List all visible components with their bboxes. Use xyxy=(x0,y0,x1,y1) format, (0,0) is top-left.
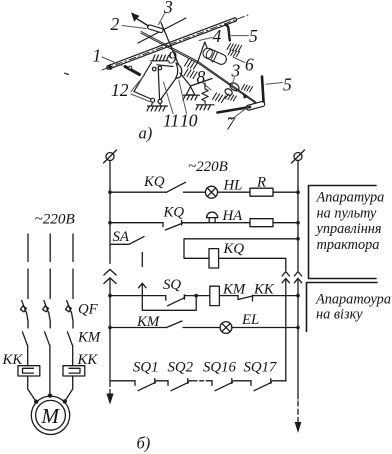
spring left of eye xyxy=(213,93,226,103)
leader 5 right xyxy=(266,83,283,85)
row HL: wire xyxy=(110,191,167,193)
svg-text:HL: HL xyxy=(223,178,243,194)
node SQ-KM xyxy=(194,294,198,298)
wire SA drop lower xyxy=(141,283,143,295)
pin 5 top xyxy=(226,25,230,41)
contact KQ (break) xyxy=(163,220,207,230)
svg-text:KM: KM xyxy=(136,314,160,330)
svg-text:SA: SA xyxy=(113,229,130,245)
svg-text:3: 3 xyxy=(231,61,241,81)
lever 8 xyxy=(180,73,212,86)
node rail-right EL xyxy=(296,326,300,330)
wire phase3 xyxy=(72,234,74,299)
node rail-left HA xyxy=(108,221,112,225)
svg-text:KQ: KQ xyxy=(143,174,165,190)
node rail KQ-link xyxy=(296,237,300,241)
breaker QF phase2 xyxy=(43,301,51,329)
link rod A xyxy=(138,18,186,43)
svg-text:EL: EL xyxy=(241,312,259,328)
svg-text:7: 7 xyxy=(226,113,236,133)
contact KM phase2 xyxy=(45,332,50,396)
wire right rail upper xyxy=(297,161,299,271)
svg-text:~220В: ~220В xyxy=(35,211,75,228)
bell HA xyxy=(207,212,218,223)
arrow down right xyxy=(295,422,302,433)
cylinder 6 xyxy=(202,47,228,66)
coil KM xyxy=(210,286,220,305)
connector chevrons right rail xyxy=(294,272,301,283)
rod crank xyxy=(161,23,179,65)
tie rod 7 xyxy=(218,107,251,113)
svg-text:SQ17: SQ17 xyxy=(244,360,277,376)
svg-text:а): а) xyxy=(139,124,153,143)
svg-text:11: 11 xyxy=(163,110,179,130)
spring vertical xyxy=(202,83,208,104)
node rail-left HL xyxy=(108,190,112,194)
node rail-left EL xyxy=(108,326,112,330)
tick left low xyxy=(65,73,69,74)
contact SQ xyxy=(166,295,209,306)
linkage lines xyxy=(134,63,177,100)
rocker link xyxy=(246,101,266,111)
svg-text:на пульту: на пульту xyxy=(317,205,377,221)
wire coil KQ to drop xyxy=(219,258,286,270)
connector chevrons left rail xyxy=(104,269,116,283)
leader 11 xyxy=(164,82,174,114)
heater KK phase1 xyxy=(18,366,40,376)
text cart block xyxy=(315,292,391,323)
text tractor block xyxy=(315,190,385,253)
contact SQ2 xyxy=(168,379,192,391)
terminal right xyxy=(292,150,305,163)
svg-text:M: M xyxy=(41,404,61,428)
svg-text:12: 12 xyxy=(111,80,129,100)
contact KM (NO) xyxy=(167,321,221,328)
contact SQ1 xyxy=(135,379,168,391)
leader 5 top xyxy=(232,35,249,37)
breaker QF phase3 xyxy=(65,301,73,329)
row HA: wire xyxy=(110,222,163,224)
svg-text:5: 5 xyxy=(283,74,292,94)
svg-text:KQ: KQ xyxy=(223,241,245,257)
svg-text:Апаратура: Апаратура xyxy=(316,190,385,206)
lamp HL xyxy=(206,186,218,198)
wire xyxy=(218,191,251,193)
svg-text:~220В: ~220В xyxy=(188,159,228,175)
node motor p3 xyxy=(63,399,67,403)
leader 7 xyxy=(232,107,249,120)
contact SQ17 xyxy=(251,379,286,391)
svg-text:KK: KK xyxy=(77,352,99,368)
arrow 2 xyxy=(131,12,149,26)
wire right rail lower xyxy=(297,278,299,399)
wire xyxy=(219,295,238,297)
wire phase1 xyxy=(27,234,29,299)
wire dashed gap xyxy=(193,380,209,382)
row EL: wire xyxy=(110,327,166,329)
svg-text:R: R xyxy=(256,175,266,191)
coil KQ xyxy=(209,249,219,268)
svg-text:б): б) xyxy=(137,434,151,453)
lamp EL xyxy=(220,322,232,334)
wire left rail upper xyxy=(109,161,111,264)
wire left rail lower xyxy=(109,278,111,381)
leader 12 a xyxy=(131,75,145,92)
svg-text:5: 5 xyxy=(249,26,258,46)
guide hatch upper-right xyxy=(242,85,253,92)
svg-text:KK: KK xyxy=(2,352,24,368)
bottom row: wire xyxy=(110,380,135,382)
arrow down left xyxy=(106,394,113,405)
svg-text:Апаратоура: Апаратоура xyxy=(315,292,391,308)
wire xyxy=(232,327,298,329)
connector chevron SA line xyxy=(139,283,147,288)
resistor R xyxy=(250,188,273,196)
node rail-right KK xyxy=(296,294,300,298)
wire mid drop xyxy=(285,278,287,381)
crescent 9 xyxy=(176,63,182,78)
pivot circles bottom xyxy=(151,98,162,106)
node motor p2 xyxy=(48,393,52,397)
svg-text:управління: управління xyxy=(315,221,382,237)
svg-text:4: 4 xyxy=(213,26,222,46)
guide hatch lower-left xyxy=(225,94,236,101)
svg-text:SQ1: SQ1 xyxy=(133,360,158,376)
svg-text:SQ16: SQ16 xyxy=(203,360,236,376)
leader 10 xyxy=(179,80,187,114)
leader 12 b xyxy=(131,94,150,102)
centerline bar 1 xyxy=(102,15,248,70)
bracket cart xyxy=(307,283,378,332)
node rail-right HA xyxy=(296,221,300,225)
motor M xyxy=(31,396,69,434)
svg-text:SQ: SQ xyxy=(163,277,181,293)
svg-text:KQ: KQ xyxy=(163,205,185,221)
breaker QF phase1 xyxy=(20,301,28,329)
terminal left xyxy=(104,150,117,163)
leader 8 xyxy=(203,83,211,90)
pivot eye rod3 xyxy=(224,81,241,96)
anchor 9 area xyxy=(151,55,174,71)
arrow on rod xyxy=(243,94,249,99)
pin 5 right xyxy=(262,77,264,102)
lever 4 xyxy=(198,42,213,63)
svg-text:на візку: на візку xyxy=(316,307,363,323)
wire KQ coil top link xyxy=(184,239,298,258)
node rail-right HL xyxy=(296,190,300,194)
svg-text:QF: QF xyxy=(78,302,99,318)
rod 3 xyxy=(141,32,256,104)
svg-text:HA: HA xyxy=(222,208,244,224)
sleeve 2 xyxy=(147,24,164,33)
wire SA bypass loop xyxy=(142,296,196,311)
triangle support xyxy=(183,87,200,101)
spring hatch top right xyxy=(227,44,242,57)
bracket tractor xyxy=(309,186,377,279)
foot under bar1 xyxy=(125,66,140,74)
svg-text:SQ2: SQ2 xyxy=(168,360,194,376)
row SQ/KM/KK: wire xyxy=(110,295,166,297)
wire phase3 to motor xyxy=(65,376,73,401)
node motor p1 xyxy=(34,400,38,404)
svg-text:KK: KK xyxy=(253,282,275,298)
svg-text:9: 9 xyxy=(168,48,177,68)
contact KK (NC) xyxy=(238,295,298,301)
wire left rail dashed continuation xyxy=(109,382,111,394)
svg-text:трактора: трактора xyxy=(317,237,380,253)
contact SQ16 xyxy=(210,379,252,391)
bar 1 xyxy=(107,18,237,71)
leader 1 xyxy=(102,57,122,66)
ground hatch spring xyxy=(196,105,214,110)
leader 3 top xyxy=(159,14,165,25)
wire xyxy=(273,222,298,224)
leader 4 xyxy=(199,38,212,41)
node rail-left SQ xyxy=(108,294,112,298)
connector chevrons mid line xyxy=(282,272,289,283)
contact KM phase1 xyxy=(22,332,27,366)
svg-text:10: 10 xyxy=(180,110,198,130)
svg-text:KM: KM xyxy=(77,330,101,346)
switch SA xyxy=(110,237,144,245)
heater KK phase3 xyxy=(63,366,85,376)
wire xyxy=(182,222,250,224)
wire xyxy=(273,191,298,193)
resistor (HA row) xyxy=(250,219,273,227)
ground hatch linkage xyxy=(147,106,168,111)
wire SA drop xyxy=(141,253,143,267)
contact KQ (NO) xyxy=(167,182,206,192)
leader 3 lower xyxy=(232,78,235,86)
svg-text:1: 1 xyxy=(93,46,102,66)
contact KM phase3 xyxy=(67,332,72,366)
wire phase2 xyxy=(49,234,51,299)
spring hatch below 4 xyxy=(184,60,198,79)
svg-text:2: 2 xyxy=(111,14,120,34)
wire right rail dashed continuation xyxy=(297,401,299,422)
leader 2 xyxy=(122,26,146,29)
leader 6 xyxy=(233,57,245,63)
svg-text:6: 6 xyxy=(245,55,254,75)
wire phase1 to motor xyxy=(28,376,36,402)
